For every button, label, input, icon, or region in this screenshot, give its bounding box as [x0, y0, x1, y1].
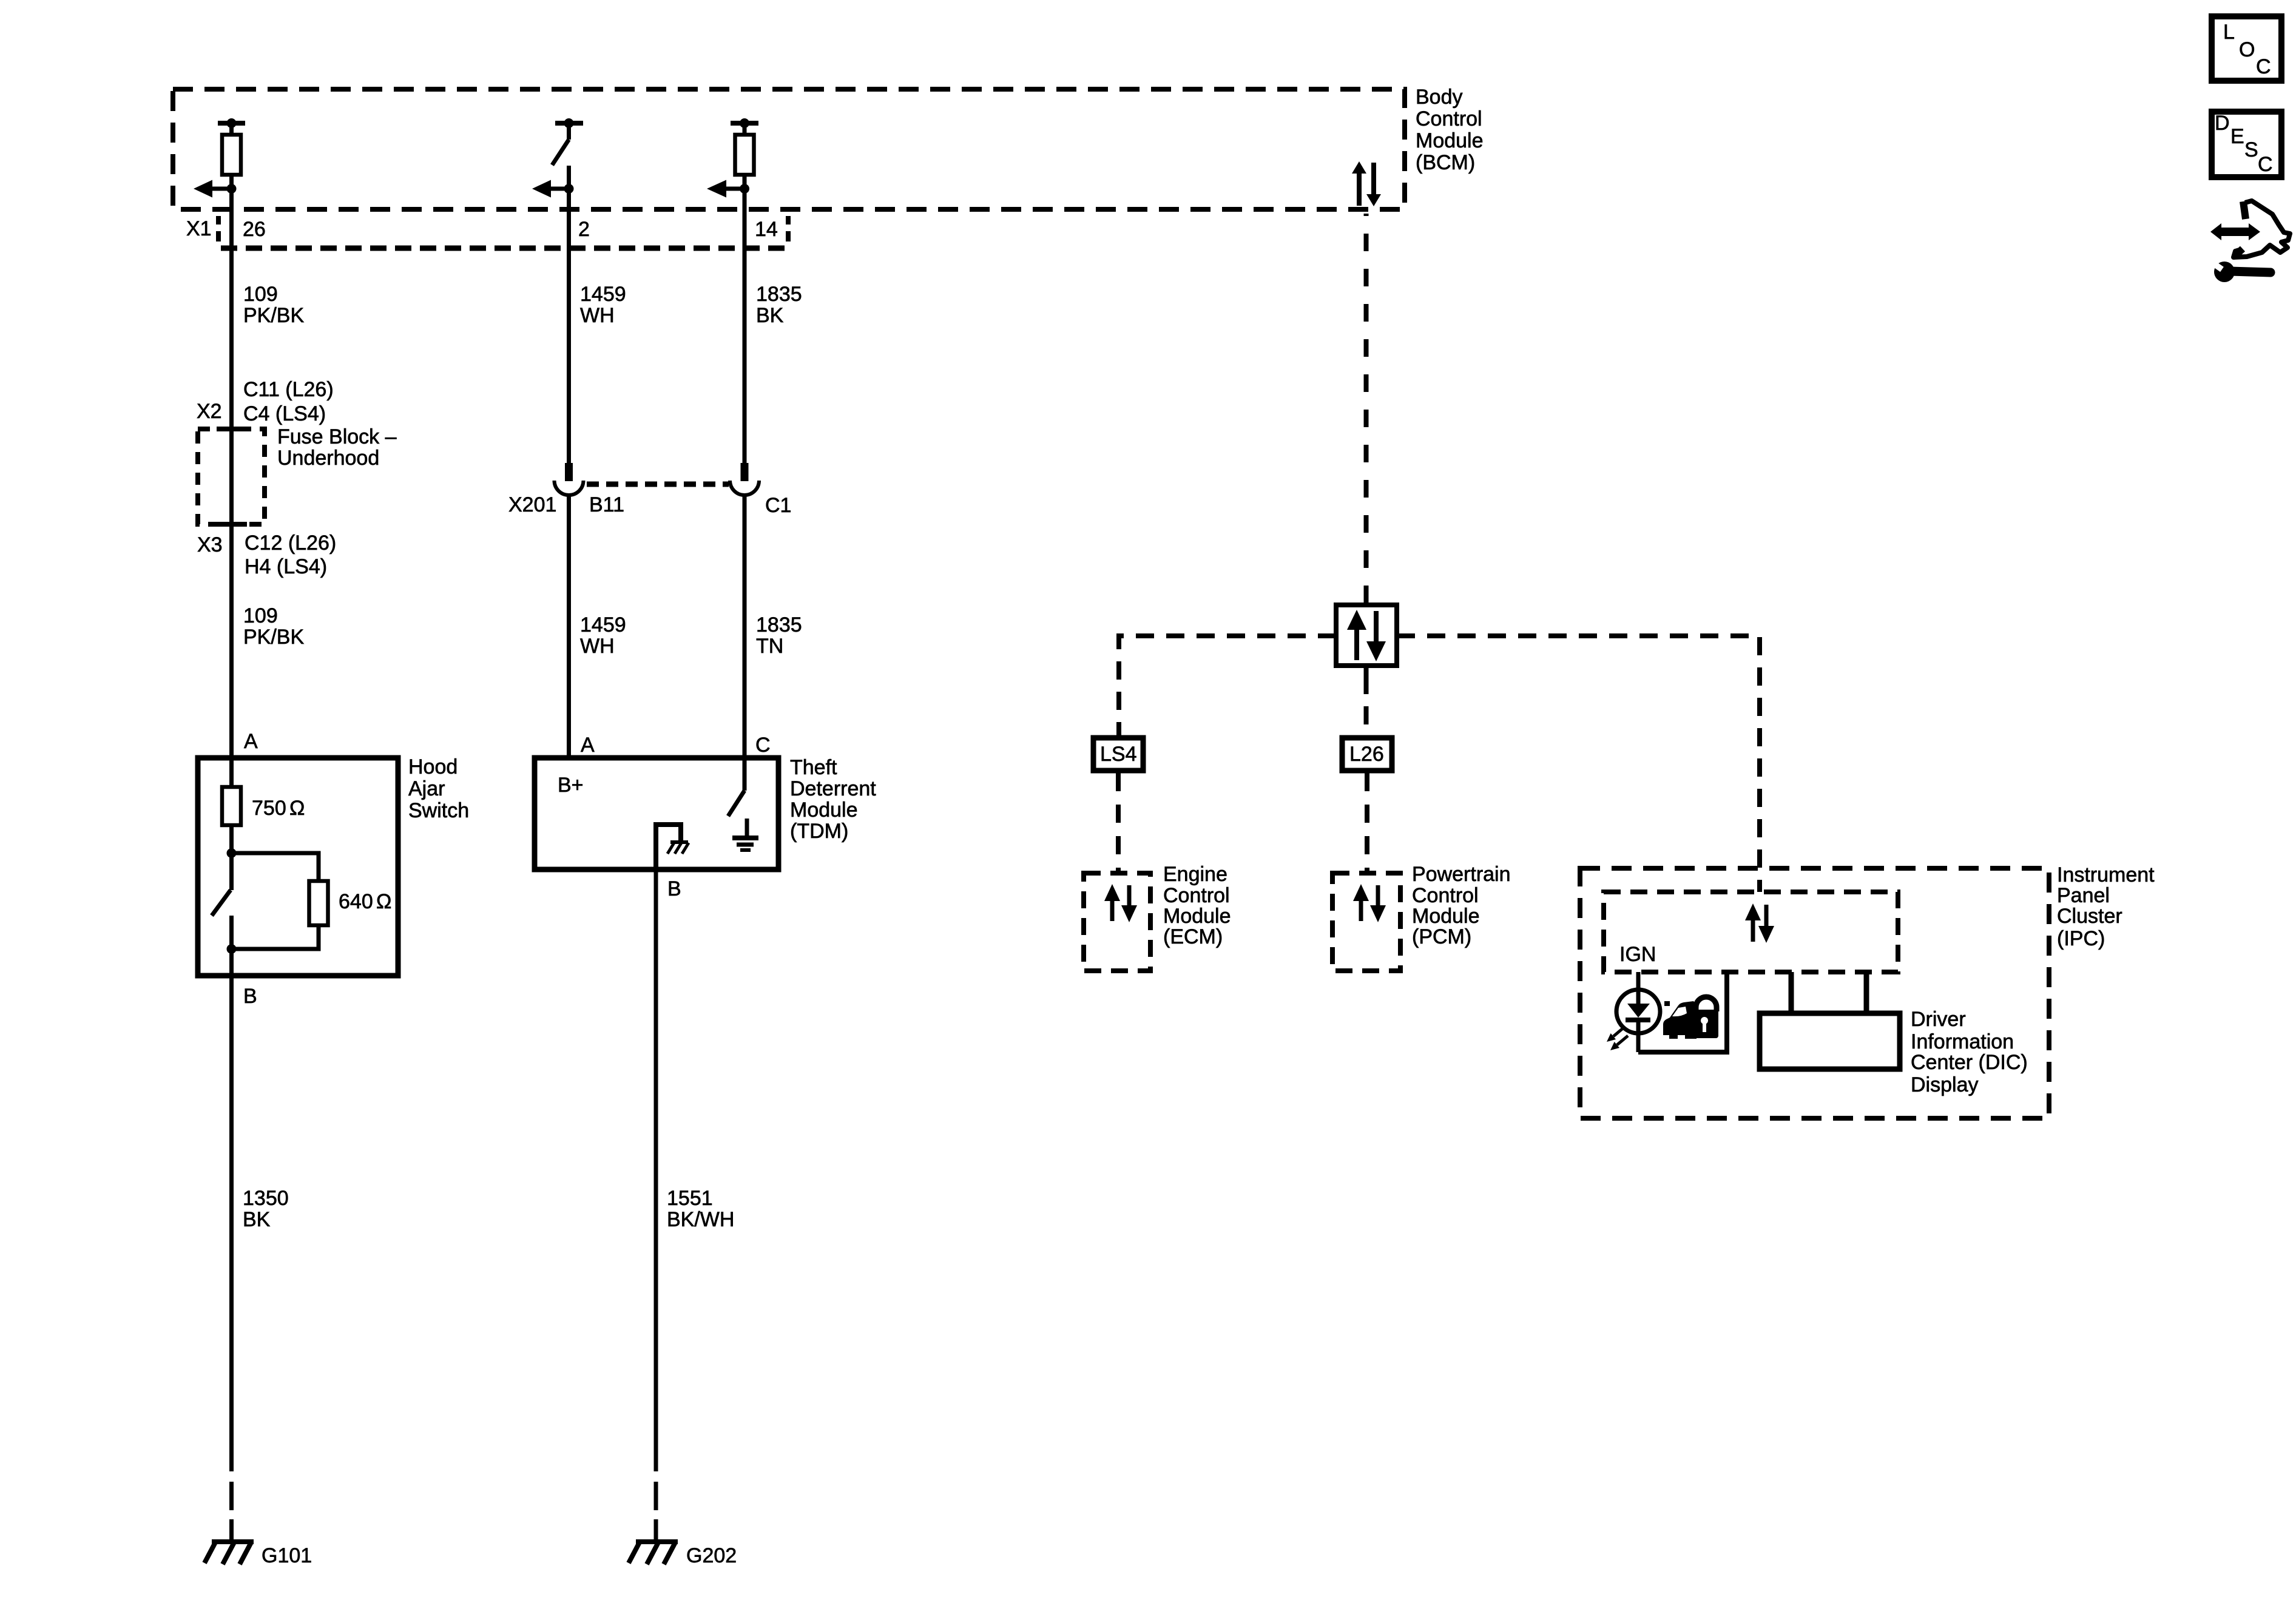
node bar with junction dot (BCM internal, CKT 109): [218, 118, 245, 135]
connector row X1 (dotted line with brackets): [218, 216, 788, 248]
LED emission arrows: [1607, 1027, 1628, 1050]
svg-text:640: 640: [339, 890, 373, 913]
engine option tag LS4 (box): [1093, 738, 1143, 771]
svg-text:X1: X1: [186, 217, 212, 240]
svg-text:(BCM): (BCM): [1416, 151, 1475, 174]
svg-text:Control: Control: [1412, 884, 1479, 907]
svg-text:S: S: [2244, 138, 2258, 161]
connector X201 pin C1 (in-line connector symbol): [730, 463, 759, 495]
ground G101: [204, 1541, 254, 1564]
ground symbol (TDM internal earth ground): [732, 819, 758, 850]
wire serial data hub to IPC branch (dashed): [1397, 636, 1760, 892]
hood ajar switch box: [198, 758, 398, 976]
value label 750 ohm: [252, 797, 305, 820]
wire serial data hub to L26 (dashed): [1364, 676, 1369, 735]
node junction dot (top of switch): [227, 848, 237, 858]
module box BCM (dashed outline): [173, 89, 1405, 209]
label 1551 BK/WH: [667, 1187, 734, 1231]
svg-text:Cluster: Cluster: [2057, 905, 2122, 928]
svg-text:WH: WH: [580, 304, 615, 327]
label 1459 WH (lower): [580, 613, 626, 658]
svg-text:1459: 1459: [580, 283, 626, 306]
svg-text:G202: G202: [686, 1544, 737, 1567]
label Fuse Block - Underhood: [277, 425, 397, 470]
ground symbol (TDM internal chassis ground): [667, 842, 689, 854]
svg-text:Module: Module: [1416, 129, 1484, 152]
module box PCM (dashed) with serial arrows: [1332, 873, 1400, 971]
svg-text:B11: B11: [589, 493, 624, 516]
label Body Control Module (BCM): [1416, 86, 1484, 174]
svg-text:Theft: Theft: [790, 756, 837, 779]
svg-text:Driver: Driver: [1911, 1008, 1966, 1031]
svg-text:B: B: [667, 877, 681, 900]
svg-text:Module: Module: [790, 798, 858, 822]
module box IPC (instrument panel cluster, dashed): [1580, 868, 2049, 1118]
svg-text:Fuse Block –: Fuse Block –: [277, 425, 397, 448]
svg-text:Switch: Switch: [408, 799, 469, 822]
svg-text:L: L: [2223, 21, 2235, 44]
node junction dot and signal arrow (pin 2): [532, 180, 574, 198]
label Driver Information Center (DIC) Display: [1911, 1008, 2028, 1096]
svg-text:Ω: Ω: [289, 797, 305, 820]
svg-text:X201: X201: [508, 493, 556, 516]
svg-text:(IPC): (IPC): [2057, 927, 2105, 950]
label Engine Control Module (ECM): [1163, 863, 1231, 948]
svg-text:B: B: [243, 985, 257, 1008]
svg-text:26: 26: [243, 218, 266, 241]
indicator LED (security telltale): [1616, 972, 1660, 1052]
wire CKT 1835 TN lower segment: [743, 495, 747, 758]
svg-text:WH: WH: [580, 635, 615, 658]
svg-text:C12 (L26): C12 (L26): [245, 532, 336, 555]
module box TDM (theft deterrent module): [535, 758, 778, 869]
svg-text:O: O: [2239, 38, 2255, 61]
legend box LOC: [2212, 16, 2281, 81]
svg-text:A: A: [581, 734, 595, 757]
svg-text:BK: BK: [243, 1208, 271, 1231]
svg-text:X3: X3: [197, 533, 223, 556]
svg-text:C: C: [755, 734, 771, 757]
wire CKT 1459 WH upper segment: [567, 189, 571, 464]
node junction dot and signal arrow (pin 14): [707, 180, 749, 198]
resistor 640 ohm: [309, 881, 328, 925]
svg-text:LS4: LS4: [1100, 743, 1137, 766]
svg-text:Ajar: Ajar: [408, 777, 445, 800]
svg-text:C: C: [2256, 55, 2271, 78]
svg-text:Ω: Ω: [376, 890, 391, 913]
label 1350 BK: [243, 1187, 289, 1231]
svg-text:X2: X2: [197, 400, 222, 423]
wire CKT 1551 BK/WH: [654, 869, 658, 1541]
svg-text:TN: TN: [756, 635, 783, 658]
svg-text:BK: BK: [756, 304, 784, 327]
module box ECM (dashed) with serial arrows: [1084, 873, 1150, 971]
svg-text:1459: 1459: [580, 613, 626, 636]
svg-text:L26: L26: [1349, 743, 1384, 766]
label 1459 WH (upper): [580, 283, 626, 327]
svg-text:Display: Display: [1911, 1073, 1978, 1096]
serial data arrows (BCM internal): [1352, 161, 1381, 206]
wire from 640 ohm resistor to lower node: [232, 925, 319, 949]
label Instrument Panel Cluster (IPC): [2057, 863, 2155, 950]
resistor 750 ohm: [222, 787, 241, 853]
svg-text:B+: B+: [558, 774, 584, 797]
svg-text:Panel: Panel: [2057, 884, 2110, 907]
svg-text:(ECM): (ECM): [1163, 925, 1223, 948]
svg-text:PK/BK: PK/BK: [243, 626, 304, 649]
label Powertrain Control Module (PCM): [1412, 863, 1511, 948]
engine option tag L26 (box): [1342, 738, 1392, 771]
label C11 (L26) / C4 (LS4): [243, 378, 334, 425]
label 109 PK/BK (lower): [243, 604, 304, 649]
svg-text:1350: 1350: [243, 1187, 289, 1210]
node bar with junction dot (BCM internal, CKT 1835): [731, 118, 758, 135]
svg-text:C: C: [2258, 153, 2273, 176]
svg-text:C4 (LS4): C4 (LS4): [243, 402, 326, 425]
DIC display box: [1760, 972, 1900, 1069]
svg-text:(PCM): (PCM): [1412, 925, 1471, 948]
svg-text:E: E: [2230, 125, 2244, 148]
svg-text:14: 14: [755, 218, 778, 241]
svg-text:Module: Module: [1412, 905, 1480, 928]
wire LED return loop: [1638, 972, 1727, 1052]
label 1835 TN: [756, 613, 802, 658]
svg-text:BK/WH: BK/WH: [667, 1208, 734, 1231]
label C12 (L26) / H4 (LS4): [245, 532, 336, 578]
node junction dot (bottom of switch): [227, 944, 237, 954]
switch S3 (TDM internal): [728, 758, 745, 816]
svg-text:PK/BK: PK/BK: [243, 304, 304, 327]
connector X201 pin B11 (in-line connector symbol): [555, 463, 584, 495]
svg-text:Hood: Hood: [408, 755, 458, 778]
svg-text:109: 109: [243, 604, 278, 627]
switch S1 (BCM internal, CKT 1459): [552, 118, 583, 186]
label 109 PK/BK (upper): [243, 283, 304, 327]
label 1835 BK: [756, 283, 802, 327]
legend box DESC: [2212, 112, 2281, 177]
icon car with security lock: [1663, 997, 1718, 1039]
svg-text:Control: Control: [1416, 107, 1482, 130]
label Hood Ajar Switch: [408, 755, 469, 822]
svg-text:C1: C1: [765, 494, 791, 517]
value label 640 ohm: [339, 890, 391, 913]
inner dashed box (IPC logic) with serial arrows: [1604, 892, 1898, 972]
label Theft Deterrent Module (TDM): [790, 756, 876, 843]
svg-text:D: D: [2215, 112, 2230, 135]
svg-text:1835: 1835: [756, 613, 802, 636]
svg-text:A: A: [244, 730, 258, 753]
svg-text:Control: Control: [1163, 884, 1230, 907]
svg-text:C11 (L26): C11 (L26): [243, 378, 334, 401]
svg-text:Instrument: Instrument: [2057, 863, 2155, 886]
svg-text:2: 2: [578, 218, 590, 241]
svg-text:Powertrain: Powertrain: [1412, 863, 1511, 886]
wire inside hood ajar switch: [229, 758, 234, 787]
svg-text:(TDM): (TDM): [790, 820, 848, 843]
icon hand with double arrow and wrench: [2208, 201, 2290, 282]
fuse block underhood (dashed box): [198, 429, 265, 524]
wire branch to 640 ohm resistor: [232, 853, 319, 881]
svg-text:109: 109: [243, 283, 278, 306]
svg-text:Deterrent: Deterrent: [790, 777, 876, 800]
svg-text:1835: 1835: [756, 283, 802, 306]
wire CKT 1350 BK: [229, 949, 234, 1541]
svg-text:H4 (LS4): H4 (LS4): [245, 555, 327, 578]
connector X201 dashed tie line: [587, 482, 729, 487]
svg-text:Information: Information: [1911, 1030, 2014, 1053]
serial data hub node (box with arrows): [1327, 605, 1406, 676]
svg-text:Module: Module: [1163, 905, 1231, 928]
svg-text:G101: G101: [262, 1544, 312, 1567]
svg-text:Center (DIC): Center (DIC): [1911, 1051, 2028, 1074]
svg-text:Underhood: Underhood: [277, 447, 379, 470]
wire LS4 to ECM (dashed): [1116, 773, 1121, 873]
wire L26 to PCM (dashed): [1365, 773, 1369, 873]
ground G202: [629, 1541, 678, 1564]
wire TDM pin B internal hook: [656, 825, 681, 869]
wire serial data BCM to hub (dashed): [1364, 214, 1369, 603]
svg-text:IGN: IGN: [1619, 943, 1656, 966]
wire serial data hub to LS4 branch (dashed): [1119, 636, 1336, 735]
svg-text:Body: Body: [1416, 86, 1463, 109]
wire CKT 109 upper segment: [229, 189, 234, 758]
wire CKT 1459 WH lower segment: [567, 495, 571, 758]
wire CKT 1835 upper segment: [743, 189, 747, 464]
svg-text:1551: 1551: [667, 1187, 713, 1210]
switch S2 (hood ajar switch contact): [212, 853, 232, 949]
resistor R2 (BCM theft input pull-up): [735, 135, 754, 186]
resistor R1 (BCM hood ajar input pull-up): [222, 135, 241, 186]
svg-text:750: 750: [252, 797, 286, 820]
svg-text:Engine: Engine: [1163, 863, 1227, 886]
node junction dot and signal arrow (pin 26): [194, 180, 237, 198]
